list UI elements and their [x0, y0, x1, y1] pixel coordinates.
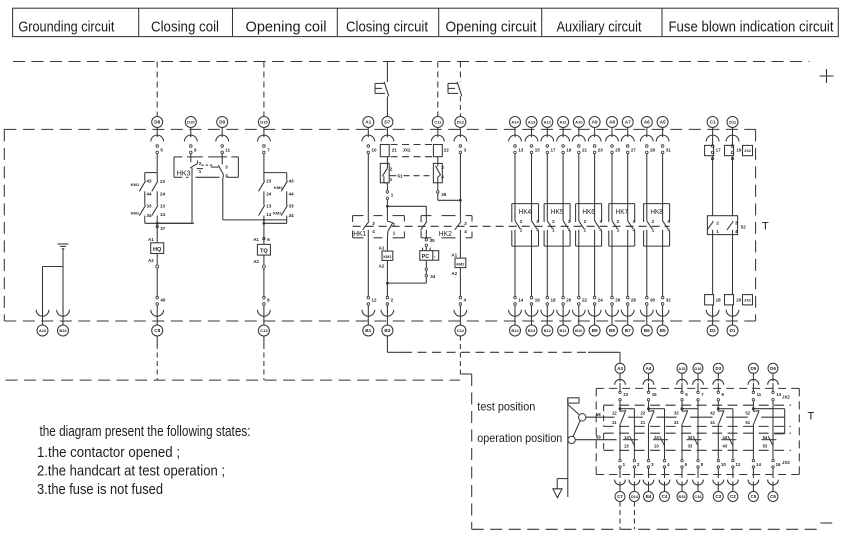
- svg-text:C13: C13: [260, 328, 268, 333]
- terminal D9: [216, 117, 231, 154]
- terminal C3: [713, 459, 726, 501]
- connector JX2 pin 22: [433, 145, 449, 157]
- wire TQ to C13: [262, 255, 265, 296]
- svg-text:43: 43: [723, 444, 728, 449]
- svg-text:B11: B11: [560, 328, 568, 333]
- svg-text:A2: A2: [148, 258, 154, 263]
- svg-text:A13: A13: [528, 120, 536, 125]
- wire bus to D8: [156, 62, 158, 118]
- HK7 contact pins 2-1: [612, 219, 620, 232]
- svg-text:A2: A2: [379, 264, 385, 269]
- svg-text:Opening circuit: Opening circuit: [446, 20, 537, 36]
- terminal C12: [454, 296, 467, 336]
- svg-text:23: 23: [654, 444, 659, 449]
- terminal C8: [151, 296, 166, 336]
- svg-text:KM2: KM2: [274, 185, 283, 190]
- svg-text:A1: A1: [451, 252, 457, 257]
- svg-text:HK6: HK6: [582, 207, 595, 216]
- coil HQ: [148, 237, 164, 263]
- switch HK6 box: [576, 204, 602, 247]
- svg-text:T: T: [762, 221, 769, 233]
- handcart switch mechanism: [557, 398, 586, 497]
- svg-text:24: 24: [598, 298, 604, 303]
- terminal B12: [541, 296, 556, 336]
- svg-text:14: 14: [266, 212, 272, 217]
- svg-text:B4: B4: [646, 494, 652, 499]
- svg-text:37: 37: [160, 226, 166, 231]
- svg-text:T: T: [808, 411, 815, 423]
- svg-text:14: 14: [160, 212, 166, 217]
- wire A8 down: [611, 154, 613, 221]
- anti-pumping device PC: [420, 248, 439, 261]
- svg-text:A5: A5: [660, 120, 666, 125]
- terminal A7: [621, 117, 636, 154]
- svg-text:B8: B8: [609, 328, 615, 333]
- terminal A11: [557, 117, 572, 154]
- svg-text:A11: A11: [560, 120, 568, 125]
- wire D14 drop: [633, 502, 635, 530]
- jumper wire: [620, 408, 634, 410]
- svg-text:B14: B14: [511, 328, 519, 333]
- svg-text:B9: B9: [592, 328, 598, 333]
- svg-text:41: 41: [710, 420, 715, 425]
- HK2 contact pins 3-4 (D12 branch): [455, 221, 468, 258]
- svg-text:17: 17: [551, 148, 557, 153]
- svg-text:53: 53: [763, 444, 768, 449]
- terminal B6: [640, 296, 655, 336]
- svg-text:JX2: JX2: [744, 148, 752, 153]
- svg-text:32: 32: [666, 298, 672, 303]
- wire D8 to KM1 ladder: [156, 154, 158, 173]
- svg-text:A2: A2: [253, 259, 259, 264]
- svg-text:51: 51: [398, 174, 404, 179]
- terminal C13: [258, 296, 271, 336]
- terminal C11: [431, 117, 444, 142]
- svg-text:34: 34: [688, 435, 693, 440]
- svg-text:18: 18: [551, 298, 557, 303]
- wire to coil HQ: [156, 223, 158, 243]
- svg-text:B12: B12: [544, 328, 552, 333]
- latch contact box C11 (pins 3-4): [433, 157, 444, 183]
- terminal A3: [615, 363, 629, 408]
- HK4 contact pins 3-4: [532, 219, 540, 232]
- wire test rail: [586, 416, 615, 418]
- svg-text:the diagram present the follow: the diagram present the following states…: [40, 424, 251, 440]
- svg-text:HK8: HK8: [650, 207, 663, 216]
- terminal C7: [615, 459, 626, 501]
- wire D7 branch to HK2 contact: [386, 205, 426, 221]
- svg-text:C12: C12: [457, 328, 465, 333]
- svg-text:11: 11: [757, 392, 762, 397]
- wire D12 down: [459, 154, 461, 221]
- HK5 contact pins 3-4: [563, 219, 571, 232]
- handcart row2 contact 54-53: [763, 435, 773, 449]
- coil KM1: [379, 245, 393, 268]
- svg-text:C6: C6: [770, 494, 776, 499]
- terminal D8: [151, 117, 164, 154]
- wire A13 down: [531, 154, 533, 221]
- svg-text:15: 15: [535, 148, 541, 153]
- handcart row1 contact 42-41: [710, 407, 724, 460]
- terminal C6: [768, 459, 781, 501]
- svg-text:17: 17: [716, 148, 722, 153]
- wire HQ to C8: [156, 254, 159, 297]
- terminal D7: [381, 117, 394, 142]
- wire A10 down: [578, 154, 580, 221]
- terminal B8: [606, 296, 621, 336]
- svg-text:29: 29: [650, 148, 656, 153]
- wire A5 down: [662, 154, 664, 221]
- terminal D2: [706, 305, 719, 336]
- latch contact box D7 (pins 2-1): [380, 157, 393, 183]
- svg-text:32: 32: [674, 411, 679, 416]
- svg-text:JX2: JX2: [744, 297, 752, 302]
- terminal D14: [629, 459, 640, 501]
- svg-text:C2: C2: [730, 494, 736, 499]
- svg-text:21: 21: [641, 420, 646, 425]
- svg-text:Auxiliary circuit: Auxiliary circuit: [557, 20, 642, 36]
- wire bus to D15: [263, 62, 265, 118]
- svg-text:D12: D12: [457, 120, 465, 125]
- node 37: [156, 225, 158, 227]
- svg-text:44: 44: [289, 191, 295, 196]
- svg-text:D3: D3: [715, 366, 721, 371]
- wire bus to pushbutton SB2: [459, 62, 461, 83]
- connector JX2 pin 18: [705, 295, 722, 305]
- switch HK3: [174, 157, 238, 178]
- wire C8 drop: [156, 336, 158, 381]
- svg-text:D10: D10: [187, 120, 195, 125]
- svg-text:A1: A1: [379, 245, 385, 250]
- svg-text:24: 24: [266, 191, 272, 196]
- svg-text:13: 13: [160, 203, 166, 208]
- handcart row2 contact 34-33: [688, 435, 698, 449]
- svg-text:20: 20: [736, 298, 742, 303]
- terminal B13: [525, 296, 540, 336]
- svg-text:JX2: JX2: [403, 147, 412, 152]
- row2 rail segments: [623, 439, 777, 441]
- svg-text:D7: D7: [384, 120, 390, 125]
- svg-text:13: 13: [266, 203, 272, 208]
- header table: [13, 8, 839, 36]
- svg-text:14: 14: [624, 435, 629, 440]
- switch HK4 box: [512, 204, 539, 247]
- terminal D12: [454, 117, 467, 154]
- - polarity mark: [820, 522, 832, 524]
- pushbutton SB2: [448, 82, 462, 117]
- svg-text:51: 51: [745, 420, 750, 425]
- svg-text:35: 35: [430, 238, 436, 243]
- node 35 on C11 branch: [437, 183, 462, 202]
- connector JX2 pin 21: [380, 145, 411, 157]
- wire A1 to HK1: [367, 154, 369, 221]
- svg-text:C8: C8: [154, 328, 160, 333]
- terminal B15: [677, 459, 688, 501]
- svg-text:12: 12: [612, 411, 617, 416]
- svg-text:10: 10: [372, 148, 378, 153]
- terminal C16: [693, 459, 704, 501]
- svg-text:Fuse blown indication circuit: Fuse blown indication circuit: [669, 20, 834, 36]
- svg-text:14: 14: [756, 462, 761, 467]
- wire A6 down: [646, 154, 648, 221]
- svg-text:11: 11: [225, 148, 230, 153]
- svg-text:35: 35: [441, 192, 447, 197]
- coil KM2: [451, 252, 465, 296]
- terminal A4: [643, 363, 657, 408]
- svg-text:Closing coil: Closing coil: [151, 20, 219, 36]
- svg-text:23: 23: [598, 148, 604, 153]
- svg-text:B13: B13: [528, 328, 536, 333]
- terminal B14: [509, 296, 524, 336]
- terminal B10: [572, 296, 587, 336]
- terminal B1: [362, 296, 377, 336]
- svg-text:C5: C5: [750, 494, 756, 499]
- svg-text:Grounding circuit: Grounding circuit: [18, 20, 114, 36]
- connector JX2 pin 17: [705, 137, 722, 216]
- HK8 contact pins 3-4: [663, 219, 671, 232]
- svg-text:3.the fuse is not fused: 3.the fuse is not fused: [37, 482, 163, 498]
- svg-text:A4: A4: [646, 366, 652, 371]
- wire to coil TQ: [263, 223, 265, 244]
- svg-text:KM1: KM1: [383, 255, 391, 259]
- connector JX2 dashes: [391, 145, 433, 157]
- wire A11 down: [562, 154, 564, 221]
- svg-text:operation position: operation position: [477, 432, 562, 445]
- handcart block dashed box: [596, 388, 799, 474]
- row1 rail segments: [628, 416, 785, 418]
- svg-text:C11: C11: [434, 120, 442, 125]
- wire bus to C11: [437, 62, 439, 118]
- svg-text:HK2: HK2: [439, 229, 452, 238]
- svg-text:Opening coil: Opening coil: [246, 20, 327, 36]
- handcart row1 contact 32-31: [674, 407, 688, 460]
- svg-text:24: 24: [654, 435, 659, 440]
- wire C7 drop: [619, 502, 621, 530]
- wire A12 down: [546, 154, 548, 221]
- switch HK8 box: [644, 204, 670, 247]
- wire to coil KM1: [386, 238, 388, 251]
- svg-text:PC: PC: [422, 254, 430, 260]
- svg-text:12: 12: [736, 462, 741, 467]
- node + supply bus: [13, 61, 809, 63]
- handcart region dashed boundary: [6, 374, 818, 529]
- svg-text:13: 13: [624, 444, 629, 449]
- HK8 contact pins 2-1: [647, 219, 655, 232]
- terminal C2: [728, 459, 741, 501]
- svg-text:HK3: HK3: [177, 169, 191, 178]
- svg-text:KM1: KM1: [131, 210, 140, 215]
- switch HK5 box: [544, 204, 570, 247]
- svg-text:11: 11: [612, 420, 617, 425]
- svg-text:HQ: HQ: [153, 247, 162, 253]
- pushbutton SB1: [375, 82, 389, 117]
- svg-text:A16: A16: [39, 328, 47, 333]
- HK4 contact pins 2-1: [515, 219, 523, 232]
- svg-text:26: 26: [615, 298, 621, 303]
- terminal A8: [606, 117, 621, 154]
- svg-text:A1: A1: [148, 237, 154, 242]
- terminal B9: [588, 296, 603, 336]
- terminal B3: [381, 296, 394, 336]
- svg-text:23: 23: [266, 178, 272, 183]
- svg-text:A3: A3: [617, 366, 623, 371]
- svg-text:A9: A9: [592, 120, 598, 125]
- terminal C5: [748, 459, 761, 501]
- svg-text:54: 54: [763, 435, 768, 440]
- svg-text:C4: C4: [662, 494, 668, 499]
- connector JX2 pin 19: [725, 137, 742, 216]
- coil TQ: [253, 244, 270, 264]
- svg-text:C1: C1: [710, 120, 716, 125]
- svg-text:KM2: KM2: [456, 262, 464, 266]
- svg-text:34: 34: [289, 213, 295, 218]
- group5 link jog: [773, 409, 785, 434]
- svg-text:21: 21: [392, 147, 398, 152]
- svg-text:A2: A2: [451, 271, 457, 276]
- svg-text:27: 27: [631, 148, 637, 153]
- svg-text:19: 19: [736, 148, 742, 153]
- svg-text:34: 34: [430, 274, 436, 279]
- svg-text:A12: A12: [544, 120, 552, 125]
- svg-text:B3: B3: [384, 328, 390, 333]
- terminal A14: [509, 117, 524, 154]
- svg-text:24: 24: [160, 191, 166, 196]
- svg-text:21: 21: [582, 148, 588, 153]
- svg-text:JX2: JX2: [782, 460, 790, 465]
- wire C12 drop: [459, 336, 461, 375]
- svg-text:42: 42: [710, 411, 715, 416]
- wire bus to pushbutton SB1: [386, 62, 388, 83]
- handcart arrow symbol: [553, 489, 562, 498]
- svg-text:15: 15: [652, 392, 657, 397]
- svg-text:A10: A10: [575, 120, 583, 125]
- svg-text:40: 40: [160, 298, 166, 303]
- svg-text:D2: D2: [710, 328, 716, 333]
- handcart row1 contact 52-51: [745, 407, 759, 460]
- svg-text:HK5: HK5: [551, 207, 564, 216]
- svg-text:D14: D14: [631, 494, 639, 499]
- svg-text:KM2: KM2: [273, 210, 282, 215]
- terminal A6: [640, 117, 655, 154]
- svg-text:C16: C16: [694, 494, 702, 499]
- svg-text:A1: A1: [253, 237, 259, 242]
- node 6: [253, 219, 270, 242]
- handcart row1 contact 22-21: [641, 407, 655, 460]
- + polarity mark: [820, 69, 834, 83]
- mechanical linkage dashes: [353, 225, 670, 227]
- svg-text:B7: B7: [625, 328, 631, 333]
- svg-text:12: 12: [372, 298, 378, 303]
- switch HK1 box: [353, 216, 405, 238]
- svg-text:B5: B5: [660, 328, 666, 333]
- svg-text:1.the contactor opened ;: 1.the contactor opened ;: [37, 445, 180, 461]
- svg-text:13: 13: [776, 392, 781, 397]
- svg-text:test position: test position: [477, 401, 535, 414]
- svg-text:KM1: KM1: [131, 182, 140, 187]
- svg-text:44: 44: [723, 435, 728, 440]
- handcart row dashed lines: [604, 405, 791, 450]
- svg-text:31: 31: [666, 148, 672, 153]
- wire A7 down: [627, 154, 629, 221]
- wire D15 to KM2 ladder: [263, 154, 265, 173]
- svg-text:D5: D5: [750, 366, 756, 371]
- ground symbol: [58, 244, 69, 267]
- HK1 contact pins 2-1 (D7 branch): [387, 221, 395, 238]
- terminal B16: [57, 305, 70, 336]
- svg-text:B6: B6: [644, 328, 650, 333]
- svg-text:D9: D9: [219, 120, 225, 125]
- svg-text:C7: C7: [617, 494, 623, 499]
- wire D10 into HK3: [190, 154, 192, 163]
- wire PC down / node 34: [425, 260, 436, 283]
- terminal B4: [643, 459, 654, 501]
- HK6 contact pins 3-4: [595, 219, 603, 232]
- node 35 on PC branch: [425, 238, 435, 251]
- svg-text:D8: D8: [154, 120, 160, 125]
- terminal D11: [726, 117, 739, 154]
- terminal D15: [258, 117, 271, 154]
- svg-text:23: 23: [623, 392, 628, 397]
- svg-text:16: 16: [776, 462, 781, 467]
- contact ladder KM2: [259, 173, 295, 225]
- svg-text:▪: ▪: [434, 255, 435, 259]
- terminal A15: [677, 363, 689, 408]
- svg-text:B10: B10: [575, 328, 583, 333]
- connector label JX2 (bottom): [743, 295, 753, 305]
- terminal C1: [706, 117, 719, 154]
- svg-text:33: 33: [147, 203, 153, 208]
- terminal D10: [184, 117, 197, 154]
- switch HK7 box: [609, 204, 635, 247]
- svg-text:30: 30: [650, 298, 656, 303]
- svg-text:D15: D15: [260, 120, 268, 125]
- handcart row2 contact 14-13: [624, 409, 634, 460]
- jumper wire: [649, 408, 665, 410]
- wire D9 into HK3: [221, 154, 223, 165]
- terminal B11: [557, 296, 572, 336]
- svg-text:B1: B1: [365, 328, 371, 333]
- svg-text:43: 43: [289, 178, 295, 183]
- connector JX2 pin 20: [725, 295, 742, 305]
- svg-text:B16: B16: [59, 328, 67, 333]
- wire operation rail: [575, 439, 616, 441]
- terminal D3: [713, 363, 725, 408]
- svg-text:A8: A8: [609, 120, 615, 125]
- svg-text:33: 33: [688, 444, 693, 449]
- svg-text:34: 34: [147, 213, 153, 218]
- wire A14 down: [514, 154, 516, 221]
- terminal A9: [588, 117, 603, 154]
- terminal A5: [656, 117, 671, 154]
- terminal C4: [659, 459, 670, 501]
- terminal A1: [362, 117, 377, 154]
- relay contact box 52: [707, 216, 746, 295]
- svg-text:A15: A15: [678, 366, 686, 371]
- node 1 on D7 branch: [386, 183, 394, 221]
- HK2 contact (PC branch): [421, 221, 427, 239]
- svg-text:22: 22: [582, 298, 588, 303]
- handcart row1 contact 12-11: [612, 407, 626, 460]
- svg-text:A14: A14: [511, 120, 519, 125]
- terminal A16: [36, 305, 49, 336]
- contact ladder KM1: [131, 173, 194, 225]
- svg-text:18: 18: [716, 298, 722, 303]
- notes text block: [37, 424, 251, 498]
- jumper wire: [682, 408, 698, 410]
- wire 51 link: [389, 174, 430, 179]
- svg-text:28: 28: [631, 298, 637, 303]
- handcart row2 contact 24-23: [654, 409, 664, 460]
